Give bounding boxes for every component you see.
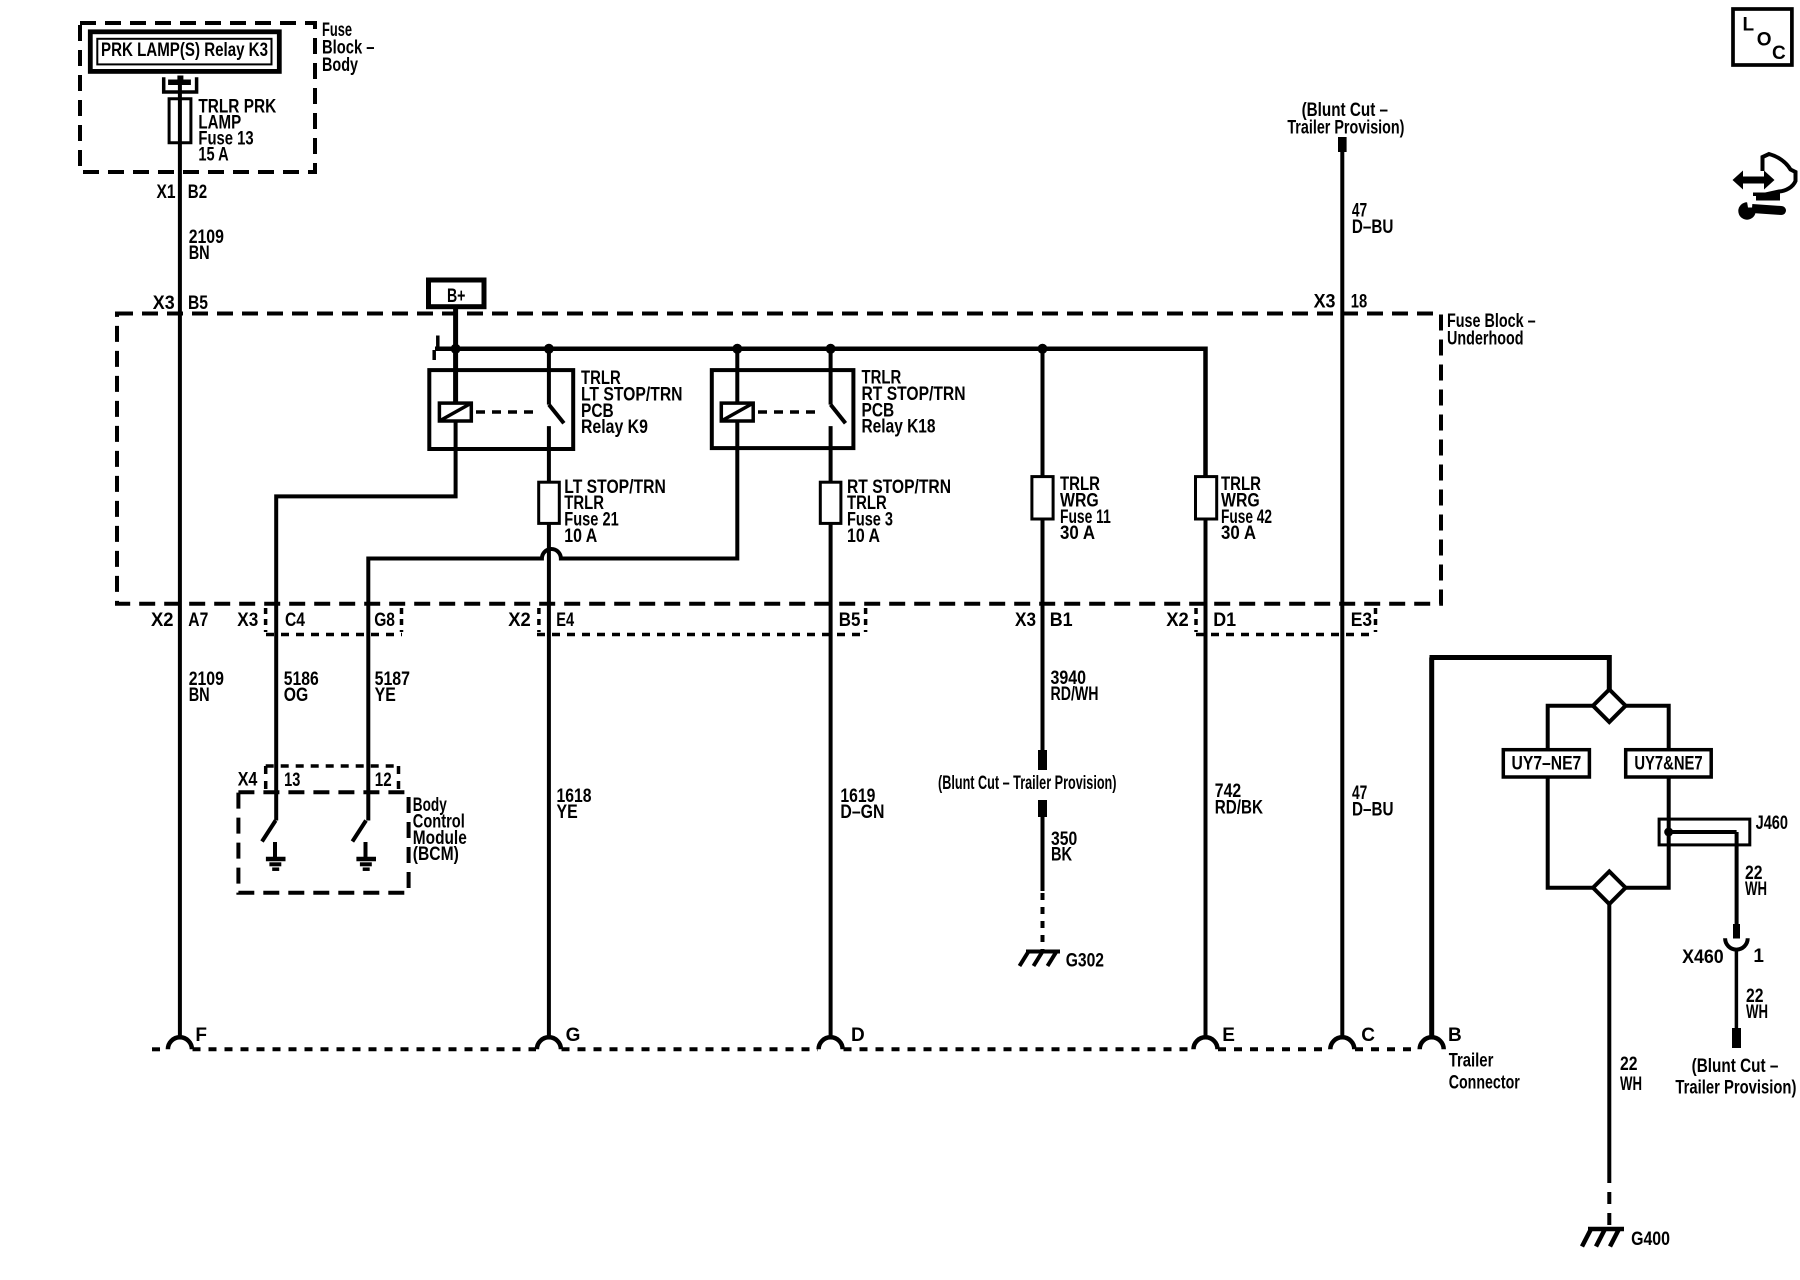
wire: J460 tap down (22 WH) xyxy=(1735,832,1739,924)
connector X460 pin 1 xyxy=(1682,924,1764,968)
svg-text:J460: J460 xyxy=(1756,813,1788,834)
trailer connector cavity F xyxy=(168,1037,192,1049)
svg-text:UY7&NE7: UY7&NE7 xyxy=(1634,754,1702,775)
trailer connector dotted line xyxy=(152,1047,1419,1051)
wire label 350 BK xyxy=(1051,829,1077,866)
wire: dashed to G302 xyxy=(1041,893,1045,950)
wire label 2109 BN (upper) xyxy=(189,227,224,264)
blunt cut terminal (bottom right) xyxy=(1732,1028,1741,1048)
wire: top run to splice xyxy=(1430,658,1610,691)
junction dot K9 switch feed xyxy=(544,344,554,354)
connector X2 pin E4 xyxy=(508,610,574,631)
wire label 1619 D-GN xyxy=(840,786,884,823)
splice J460 xyxy=(1659,813,1788,845)
svg-text:BN: BN xyxy=(189,685,210,706)
wire: fuse F21 output to trailer G xyxy=(547,523,551,1037)
junction dot K18 coil feed xyxy=(732,344,742,354)
svg-text:(BCM): (BCM) xyxy=(413,844,459,865)
svg-text:18: 18 xyxy=(1351,292,1367,313)
svg-text:X3: X3 xyxy=(1015,610,1036,631)
splice diamond (bottom) xyxy=(1593,871,1626,904)
svg-text:F: F xyxy=(195,1025,207,1046)
svg-text:BN: BN xyxy=(189,243,210,264)
blunt cut label (top right) xyxy=(1287,100,1404,139)
wire label 22 WH (J460 tap) xyxy=(1745,863,1767,900)
connector X4 outline xyxy=(266,766,399,789)
svg-text:YE: YE xyxy=(557,802,578,823)
svg-text:X3: X3 xyxy=(1314,292,1336,313)
relay K9 label xyxy=(581,368,683,438)
B+ terminal xyxy=(429,280,485,307)
svg-text:PRK LAMP(S) Relay K3: PRK LAMP(S) Relay K3 xyxy=(101,40,268,61)
connector outline C4-G8 xyxy=(266,608,402,635)
wire: B+ feed xyxy=(453,307,458,403)
fuse block - body label xyxy=(322,20,375,76)
fuse F13 xyxy=(169,99,191,143)
fuse F21 label xyxy=(564,477,666,547)
svg-text:RD/BK: RD/BK xyxy=(1215,798,1263,819)
option box UY7&NE7 xyxy=(1626,750,1712,777)
svg-text:BK: BK xyxy=(1051,845,1072,866)
blunt cut terminal (top) xyxy=(1338,137,1347,152)
connector X3 pin 18 xyxy=(1314,292,1368,313)
fuse F42 label xyxy=(1221,474,1272,544)
svg-text:E3: E3 xyxy=(1351,610,1372,631)
wire: trailer B riser xyxy=(1429,658,1434,1039)
wire label 47 D-BU (lower) xyxy=(1352,783,1394,820)
relay K9 coil-switch dashed link xyxy=(476,410,540,414)
blunt cut terminal (350 BK top) xyxy=(1038,800,1047,817)
svg-text:1: 1 xyxy=(1753,946,1764,967)
wire label 1618 YE xyxy=(557,786,592,823)
fuse F3 label xyxy=(847,477,951,547)
svg-text:Trailer: Trailer xyxy=(1449,1051,1494,1072)
svg-text:C: C xyxy=(1772,43,1786,64)
svg-text:E: E xyxy=(1222,1025,1235,1046)
svg-text:30 A: 30 A xyxy=(1221,523,1256,544)
trailer connector pin labels xyxy=(195,1025,1461,1046)
BCM switch pin 13 xyxy=(262,821,276,842)
fuse block - body dashed box xyxy=(80,23,315,172)
wire: 47 D-BU to trailer C xyxy=(1340,152,1344,1038)
wire: B+ bus xyxy=(435,349,1206,477)
BCM ground pin 12 xyxy=(356,842,376,869)
svg-text:Underhood: Underhood xyxy=(1447,329,1524,350)
svg-text:B: B xyxy=(1448,1025,1462,1046)
fuse F13 label xyxy=(198,97,276,166)
wire: K18 coil feed xyxy=(735,349,739,403)
wire: K18 coil output to G8 with hop xyxy=(368,421,737,821)
svg-text:RD/WH: RD/WH xyxy=(1051,684,1099,705)
trailer connector cavity B xyxy=(1420,1037,1444,1049)
svg-text:D–BU: D–BU xyxy=(1352,217,1394,238)
svg-text:Trailer Provision): Trailer Provision) xyxy=(1287,118,1404,139)
relay K3 contact symbol xyxy=(164,76,197,93)
connector X2 pin A7 xyxy=(151,610,208,631)
wire label 742 RD/BK xyxy=(1215,781,1263,819)
wire: X460 to blunt cut xyxy=(1735,950,1739,1028)
relay K18 coil xyxy=(721,403,753,421)
connector outline D1-E3 xyxy=(1196,608,1376,635)
BCM label xyxy=(413,795,467,865)
connector X3 pin B1 xyxy=(1015,610,1073,631)
wire: fuse F11 output (3940) xyxy=(1041,519,1045,750)
svg-text:C4: C4 xyxy=(285,610,305,631)
svg-text:E4: E4 xyxy=(556,610,574,631)
wire: J460 continuation to bottom splice xyxy=(1625,832,1669,888)
fuse block - underhood label xyxy=(1447,311,1536,350)
fuse F21 xyxy=(539,482,560,523)
blunt cut terminal (3940) xyxy=(1038,750,1047,770)
ground G302 xyxy=(1020,951,1105,972)
svg-text:G8: G8 xyxy=(374,610,395,631)
bus hook mark xyxy=(434,336,438,361)
connector X3 pin C4 xyxy=(237,610,305,631)
wire: 350 BK xyxy=(1041,817,1045,891)
trailer connector label xyxy=(1449,1051,1521,1094)
wire label 3940 RD/WH xyxy=(1051,668,1099,705)
svg-text:UY7–NE7: UY7–NE7 xyxy=(1512,754,1582,775)
power distribution icon xyxy=(1733,154,1796,220)
svg-text:10 A: 10 A xyxy=(564,526,597,547)
svg-text:D: D xyxy=(851,1025,865,1046)
svg-text:WH: WH xyxy=(1745,879,1767,900)
svg-text:Relay K18: Relay K18 xyxy=(862,417,936,438)
relay K3 box xyxy=(90,32,279,72)
wire: right branch upper xyxy=(1625,706,1669,750)
BCM switch pin 12 xyxy=(352,821,366,842)
relay K18 label xyxy=(862,368,966,438)
svg-text:22: 22 xyxy=(1620,1054,1638,1075)
junction dot K18 switch feed xyxy=(826,344,836,354)
svg-text:13: 13 xyxy=(284,770,300,791)
LOC icon xyxy=(1733,9,1792,65)
connector X4 pin labels xyxy=(238,770,392,792)
junction dot fuse F11 feed xyxy=(1038,344,1048,354)
relay K18 box xyxy=(712,370,854,448)
svg-text:Relay K9: Relay K9 xyxy=(581,417,648,438)
svg-text:G: G xyxy=(566,1025,581,1046)
svg-text:B5: B5 xyxy=(839,610,861,631)
svg-text:OG: OG xyxy=(284,685,309,706)
wire label 5186 OG xyxy=(284,669,319,706)
connector X2 pin D1 xyxy=(1166,610,1236,631)
svg-text:10 A: 10 A xyxy=(847,526,880,547)
svg-text:WH: WH xyxy=(1746,1002,1768,1023)
svg-text:15 A: 15 A xyxy=(198,145,229,166)
connector outline E4-B5 xyxy=(537,608,866,635)
splice diamond (top) xyxy=(1593,689,1626,722)
svg-text:X2: X2 xyxy=(508,610,531,631)
wire: fuse F42 output to trailer E xyxy=(1204,519,1208,1038)
wire: right branch to J460 xyxy=(1667,777,1671,832)
svg-text:X4: X4 xyxy=(238,770,258,791)
svg-text:(Blunt Cut – Trailer Provision: (Blunt Cut – Trailer Provision) xyxy=(938,773,1117,794)
connector X1 pin B2 xyxy=(157,182,208,203)
svg-text:(Blunt Cut –: (Blunt Cut – xyxy=(1692,1056,1779,1077)
wire: dashed to G400 xyxy=(1607,1171,1611,1227)
svg-text:12: 12 xyxy=(375,770,392,791)
svg-text:WH: WH xyxy=(1620,1074,1642,1095)
svg-text:D1: D1 xyxy=(1213,610,1236,631)
svg-text:B1: B1 xyxy=(1050,610,1073,631)
ground G400 xyxy=(1582,1229,1670,1250)
blunt cut label (bottom right) xyxy=(1675,1056,1796,1099)
wire label 22 WH (below X460) xyxy=(1746,986,1768,1023)
BCM dashed box xyxy=(238,792,408,893)
svg-text:YE: YE xyxy=(375,685,396,706)
svg-text:L: L xyxy=(1743,15,1755,36)
wire: left main (2109 BN circuit) xyxy=(178,84,182,1038)
trailer connector cavity G xyxy=(537,1037,561,1049)
fuse F3 xyxy=(820,482,841,523)
svg-text:X3: X3 xyxy=(237,610,258,631)
trailer connector cavity C xyxy=(1330,1037,1354,1049)
wire: K9 coil output to C4 xyxy=(276,421,455,821)
relay K9 switch xyxy=(549,349,564,482)
svg-text:X2: X2 xyxy=(151,610,174,631)
svg-text:B5: B5 xyxy=(188,293,208,314)
svg-text:D–GN: D–GN xyxy=(840,802,884,823)
BCM ground pin 13 xyxy=(266,842,286,869)
svg-text:X3: X3 xyxy=(153,293,175,314)
wire: fuse F3 output to trailer D xyxy=(829,523,833,1037)
svg-text:Connector: Connector xyxy=(1449,1072,1521,1093)
relay K9 coil xyxy=(439,403,471,421)
wire: fuse F11 feed xyxy=(1041,349,1045,477)
svg-text:A7: A7 xyxy=(188,610,208,631)
wire label 22 WH (G400 wire) xyxy=(1620,1054,1642,1095)
junction dot B+ feed xyxy=(451,344,461,354)
wire label 5187 YE xyxy=(375,669,410,706)
svg-text:G302: G302 xyxy=(1066,951,1104,972)
wire: splice to G400 xyxy=(1607,904,1611,1171)
svg-text:X460: X460 xyxy=(1682,947,1724,968)
fuse F42 xyxy=(1196,477,1217,519)
option box UY7-NE7 xyxy=(1503,750,1589,777)
trailer connector cavity D xyxy=(819,1037,843,1049)
svg-text:Trailer Provision): Trailer Provision) xyxy=(1675,1078,1796,1099)
fuse block - underhood dashed box xyxy=(117,314,1441,604)
svg-text:C: C xyxy=(1361,1025,1375,1046)
relay K18 coil-switch dashed link xyxy=(758,410,822,414)
fuse F11 label xyxy=(1060,474,1111,544)
wire label 47 D-BU (upper) xyxy=(1352,201,1394,238)
svg-text:O: O xyxy=(1757,30,1772,51)
svg-text:G400: G400 xyxy=(1631,1229,1670,1250)
svg-text:D–BU: D–BU xyxy=(1352,799,1394,820)
wire: left branch lower xyxy=(1548,777,1594,888)
wire label 2109 BN (lower) xyxy=(189,669,224,706)
trailer connector cavity E xyxy=(1194,1037,1218,1049)
svg-text:X2: X2 xyxy=(1166,610,1189,631)
connector X3 pin B5 xyxy=(153,293,209,314)
relay K18 switch xyxy=(831,349,846,482)
svg-text:X1: X1 xyxy=(157,182,176,203)
svg-text:30 A: 30 A xyxy=(1060,523,1095,544)
fuse F11 xyxy=(1032,477,1053,519)
wire: left branch upper xyxy=(1548,706,1594,750)
svg-text:B+: B+ xyxy=(447,286,466,307)
svg-text:B2: B2 xyxy=(188,182,207,203)
relay K9 box xyxy=(429,370,573,449)
svg-text:Body: Body xyxy=(322,55,358,76)
